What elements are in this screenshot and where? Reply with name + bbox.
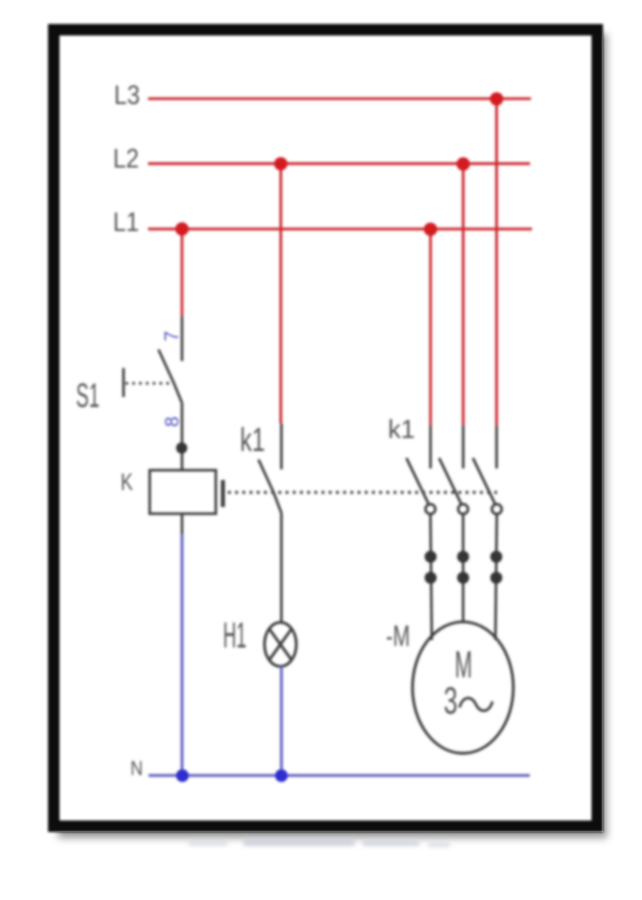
svg-text:8: 8	[163, 416, 184, 427]
wire main contact 2 upper terminal	[462, 425, 465, 468]
frame white plate	[48, 24, 603, 832]
svg-text:K: K	[121, 469, 134, 496]
terminal dots contact 2	[457, 551, 469, 563]
contactor coil K	[150, 470, 216, 514]
motor tilde symbol	[460, 698, 493, 711]
wire contact 2 to motor	[462, 514, 465, 623]
node N/lamp junction	[275, 769, 288, 782]
switch S1 actuator dotted link	[126, 382, 172, 385]
contact k1 aux blade	[259, 460, 282, 513]
node L3/main junction	[490, 92, 503, 105]
wire S1 upper terminal	[181, 316, 184, 362]
svg-text:L3: L3	[114, 80, 140, 110]
svg-text:L2: L2	[113, 144, 139, 174]
power line L3	[148, 97, 531, 100]
wire L3 drop to main contact 3	[495, 99, 498, 425]
contactor K armature bar	[221, 480, 225, 507]
svg-text:N: N	[130, 758, 143, 780]
power line L2	[148, 162, 530, 165]
wire main contact 1 upper terminal	[429, 425, 432, 468]
svg-text:H1: H1	[223, 615, 247, 656]
wire contact 3 to motor	[495, 514, 496, 640]
watermark smudge 4	[188, 840, 228, 846]
wire L1 drop to S1	[181, 229, 184, 316]
node S1/coil junction	[176, 442, 187, 453]
contact k1 main blade 1	[406, 458, 428, 504]
svg-text:-M: -M	[386, 620, 410, 653]
node L2/lamp junction	[274, 157, 287, 170]
border frame	[48, 24, 603, 832]
node L1/main junction	[424, 223, 437, 236]
power line L1	[148, 228, 532, 231]
frame drop shadow	[58, 34, 607, 838]
wire k1 aux upper terminal	[280, 424, 283, 470]
terminal dots contact 1	[425, 551, 437, 563]
watermark smudge 2	[362, 840, 420, 846]
wire L1 drop to main contact 1	[429, 229, 432, 425]
contact k1 main blade 2	[439, 458, 461, 504]
wire below coil K	[181, 514, 184, 536]
lamp H1	[265, 622, 297, 666]
watermark smudge 3	[428, 842, 450, 847]
contact k1 main tip 3	[492, 504, 502, 514]
switch S1 actuator	[122, 368, 125, 397]
switch S1 blade	[159, 350, 183, 404]
svg-text:7: 7	[162, 331, 183, 342]
contact k1 main blade 3	[473, 458, 495, 504]
svg-text:k1: k1	[388, 414, 415, 444]
node L1/S1 junction	[175, 222, 188, 235]
wire L2 drop to main contact 2	[462, 164, 465, 425]
wire lamp H1 to N	[280, 666, 283, 775]
wire main contact 3 upper terminal	[495, 425, 498, 468]
watermark smudge 1	[243, 839, 355, 846]
svg-text:S1: S1	[76, 377, 100, 415]
contactor linkage dotted line	[228, 491, 497, 494]
node N/coil junction	[176, 769, 189, 782]
contact k1 main tip 1	[426, 504, 436, 514]
motor M circle	[413, 622, 514, 753]
neutral line N	[149, 774, 530, 777]
wire L2 drop to k1 aux	[279, 164, 282, 424]
svg-text:L1: L1	[113, 207, 139, 237]
wire contact 1 to motor	[430, 514, 431, 640]
svg-text:3: 3	[444, 680, 458, 722]
terminal dots contact 3	[490, 551, 502, 563]
wire k1 aux to lamp H1	[280, 513, 283, 623]
contact k1 main tip 2	[458, 504, 468, 514]
wire S1 to coil K	[181, 403, 184, 470]
svg-text:k1: k1	[240, 421, 265, 458]
wire coil K to N	[181, 534, 184, 775]
node L2/main junction	[457, 157, 470, 170]
